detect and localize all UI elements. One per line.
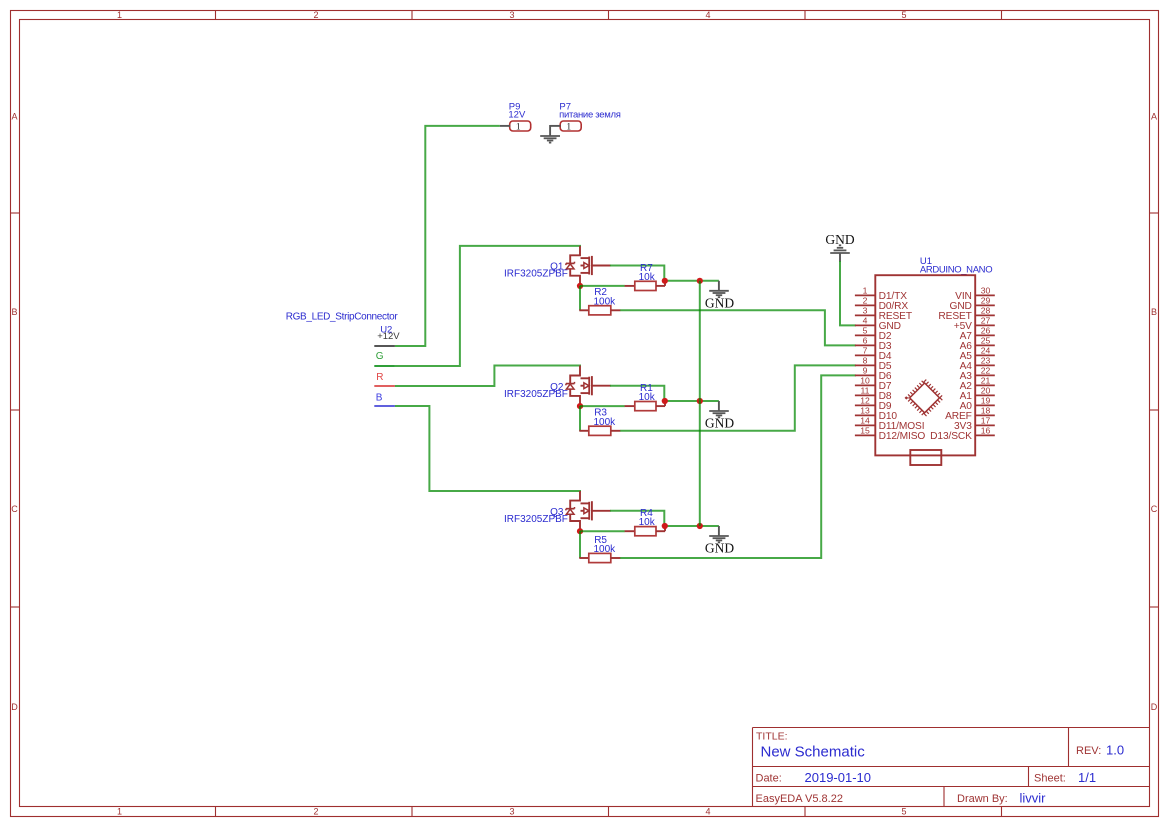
svg-text:16: 16 bbox=[981, 425, 991, 435]
svg-text:5: 5 bbox=[901, 807, 906, 817]
wire Q2 source to R1 bbox=[580, 405, 625, 407]
wire gate of Q3 to divider node bbox=[610, 511, 664, 526]
svg-text:+12V: +12V bbox=[377, 331, 400, 342]
svg-text:2: 2 bbox=[313, 10, 318, 20]
svg-text:C: C bbox=[11, 504, 18, 514]
svg-text:IRF3205ZPBF: IRF3205ZPBF bbox=[504, 514, 568, 525]
svg-text:3: 3 bbox=[863, 305, 868, 315]
title block bbox=[753, 728, 1150, 807]
junction node to ground trunk bbox=[697, 523, 703, 529]
svg-text:24: 24 bbox=[981, 345, 991, 355]
junction node to ground trunk bbox=[697, 278, 703, 284]
svg-text:3: 3 bbox=[509, 10, 514, 20]
svg-text:D12/MISO: D12/MISO bbox=[879, 431, 926, 442]
svg-text:27: 27 bbox=[981, 315, 991, 325]
svg-text:1.0: 1.0 bbox=[1106, 743, 1124, 758]
svg-text:livvir: livvir bbox=[1020, 791, 1047, 806]
pin +12V of U2 bbox=[374, 331, 400, 346]
wire divider node to ground (Q2 row) bbox=[664, 400, 719, 402]
svg-text:B: B bbox=[376, 392, 383, 403]
pin 2 D0/RX of U1 bbox=[855, 295, 908, 312]
wire Q1 source down to R2 bbox=[579, 286, 581, 310]
pin 18 AREF of U1 bbox=[945, 405, 995, 422]
pin R of U2 bbox=[374, 372, 395, 386]
svg-text:6: 6 bbox=[863, 335, 868, 345]
svg-text:5: 5 bbox=[863, 325, 868, 335]
svg-text:30: 30 bbox=[981, 285, 991, 295]
svg-text:18: 18 bbox=[981, 405, 991, 415]
svg-text:23: 23 bbox=[981, 355, 991, 365]
wire R net (U2.R to Q2 drain) bbox=[395, 366, 581, 387]
pin 22 A3 of U1 bbox=[960, 365, 995, 382]
svg-text:21: 21 bbox=[981, 375, 991, 385]
svg-text:3: 3 bbox=[509, 807, 514, 817]
svg-text:26: 26 bbox=[981, 325, 991, 335]
resistor R2 100k bbox=[579, 287, 620, 315]
pin 13 D10 of U1 bbox=[855, 405, 897, 422]
svg-text:GND: GND bbox=[705, 416, 734, 431]
svg-text:28: 28 bbox=[981, 305, 991, 315]
resistor R4 10k bbox=[625, 508, 665, 536]
junction node to ground trunk bbox=[697, 398, 703, 404]
svg-text:B: B bbox=[11, 307, 17, 317]
svg-text:11: 11 bbox=[861, 385, 870, 395]
svg-text:IRF3205ZPBF: IRF3205ZPBF bbox=[504, 269, 568, 280]
svg-text:1: 1 bbox=[863, 285, 868, 295]
wire divider node to ground (Q3 row) bbox=[664, 525, 719, 527]
svg-text:20: 20 bbox=[981, 385, 991, 395]
junction at Q2 source bbox=[577, 403, 583, 409]
svg-text:1: 1 bbox=[117, 807, 122, 817]
svg-text:17: 17 bbox=[981, 415, 991, 425]
svg-text:Date:: Date: bbox=[756, 773, 782, 785]
svg-text:питание земля: питание земля bbox=[559, 110, 621, 121]
wire G net (U2.G to Q1 drain) bbox=[395, 246, 581, 366]
wire Q3 source down to R5 bbox=[579, 531, 581, 558]
svg-text:8: 8 bbox=[863, 355, 868, 365]
ground (Q1 row) bbox=[709, 281, 729, 297]
svg-text:22: 22 bbox=[981, 365, 991, 375]
pin 27 +5V of U1 bbox=[954, 315, 995, 332]
connector P7 bbox=[550, 102, 621, 133]
wire ground-node trunk (rows 1-3) bbox=[699, 281, 701, 526]
svg-text:1: 1 bbox=[117, 10, 122, 20]
pin 5 D2 of U1 bbox=[855, 325, 892, 342]
resistor R1 10k bbox=[625, 383, 665, 411]
svg-text:1/1: 1/1 bbox=[1078, 770, 1096, 785]
svg-text:10k: 10k bbox=[639, 272, 656, 283]
pin 11 D8 of U1 bbox=[855, 385, 892, 402]
junction at Q1 source bbox=[577, 283, 583, 289]
wire 12V net (P9 to U2 +12V) bbox=[395, 126, 500, 346]
pin 14 D11/MOSI of U1 bbox=[855, 415, 925, 432]
transistor Q3 IRF3205ZPBF bbox=[504, 491, 611, 531]
wire R3 to U1 D5 bbox=[620, 365, 856, 430]
svg-text:15: 15 bbox=[860, 425, 870, 435]
pin 8 D5 of U1 bbox=[855, 355, 892, 372]
svg-text:5: 5 bbox=[901, 10, 906, 20]
ground (P7) bbox=[540, 125, 560, 143]
svg-text:1: 1 bbox=[566, 122, 571, 132]
svg-text:D: D bbox=[1151, 702, 1158, 712]
connector P9 bbox=[500, 102, 531, 133]
resistor R5 100k bbox=[579, 535, 620, 563]
svg-text:R: R bbox=[376, 372, 383, 383]
svg-text:Sheet:: Sheet: bbox=[1034, 773, 1066, 785]
chip icon inside U1 bbox=[907, 380, 942, 415]
svg-text:G: G bbox=[376, 351, 384, 362]
ground (Q2 row) bbox=[709, 401, 729, 417]
svg-text:4: 4 bbox=[705, 807, 710, 817]
pin 29 GND of U1 bbox=[950, 295, 995, 312]
svg-text:2019-01-10: 2019-01-10 bbox=[805, 770, 872, 785]
wire Q2 source down to R3 bbox=[579, 406, 581, 431]
pin 10 D7 of U1 bbox=[855, 375, 892, 392]
svg-text:Drawn By:: Drawn By: bbox=[957, 793, 1008, 805]
pin 23 A4 of U1 bbox=[960, 355, 995, 372]
svg-text:7: 7 bbox=[863, 345, 868, 355]
svg-text:10k: 10k bbox=[639, 517, 656, 528]
USB connector of U1 bbox=[910, 450, 941, 465]
svg-text:2: 2 bbox=[863, 295, 868, 305]
transistor Q2 IRF3205ZPBF bbox=[504, 366, 611, 407]
svg-text:100k: 100k bbox=[594, 417, 617, 428]
pin 26 A7 of U1 bbox=[960, 325, 995, 342]
svg-text:A: A bbox=[11, 111, 17, 121]
ground (U1 GND pin) bbox=[830, 245, 850, 261]
pin 7 D4 of U1 bbox=[855, 345, 892, 362]
svg-text:TITLE:: TITLE: bbox=[756, 731, 788, 743]
svg-text:ARDUINO_NANO: ARDUINO_NANO bbox=[920, 265, 992, 276]
svg-text:100k: 100k bbox=[594, 296, 617, 307]
pin 17 3V3 of U1 bbox=[954, 415, 995, 432]
svg-text:12V: 12V bbox=[508, 110, 526, 121]
pin 19 A0 of U1 bbox=[960, 395, 995, 412]
svg-text:A: A bbox=[1151, 111, 1157, 121]
pin 15 D12/MISO of U1 bbox=[855, 425, 925, 442]
svg-text:D13/SCK: D13/SCK bbox=[930, 431, 972, 442]
pin 20 A1 of U1 bbox=[960, 385, 995, 402]
wire GND to U1 pin 4 bbox=[840, 261, 856, 325]
junction R7/gate node bbox=[662, 278, 668, 284]
svg-text:10k: 10k bbox=[639, 392, 656, 403]
wire R5 to U1 D6 bbox=[620, 375, 856, 558]
svg-text:C: C bbox=[1151, 504, 1158, 514]
pin 3 RESET of U1 bbox=[855, 305, 912, 322]
svg-text:GND: GND bbox=[705, 295, 734, 310]
svg-text:EasyEDA V5.8.22: EasyEDA V5.8.22 bbox=[756, 793, 843, 805]
junction R4/gate node bbox=[662, 523, 668, 529]
wire R2 to U1 D3 bbox=[620, 310, 856, 345]
pin 6 D3 of U1 bbox=[855, 335, 892, 352]
IC U1 ARDUINO_NANO bbox=[875, 256, 992, 455]
pin 12 D9 of U1 bbox=[855, 395, 892, 412]
resistor R3 100k bbox=[579, 408, 620, 436]
pin 1 D1/TX of U1 bbox=[855, 285, 907, 302]
pin G of U2 bbox=[374, 351, 395, 366]
junction R1/gate node bbox=[662, 398, 668, 404]
svg-text:100k: 100k bbox=[594, 544, 617, 555]
pin B of U2 bbox=[374, 392, 395, 406]
pin 16 D13/SCK of U1 bbox=[930, 425, 995, 442]
svg-text:RGB_LED_StripConnector: RGB_LED_StripConnector bbox=[286, 312, 399, 323]
resistor R7 10k bbox=[625, 263, 665, 291]
wire Q3 source to R4 bbox=[580, 530, 625, 532]
wire divider node to ground (Q1 row) bbox=[664, 280, 719, 282]
pin 4 GND of U1 bbox=[855, 315, 901, 332]
svg-text:9: 9 bbox=[863, 365, 868, 375]
wire Q1 source to R7 bbox=[580, 285, 625, 287]
pin 21 A2 of U1 bbox=[960, 375, 995, 392]
svg-text:New Schematic: New Schematic bbox=[761, 744, 866, 761]
wire B net (U2.B to Q3 drain) bbox=[395, 406, 581, 491]
svg-text:4: 4 bbox=[705, 10, 710, 20]
ground (Q3 row) bbox=[709, 526, 729, 542]
connector U2 RGB_LED_StripConnector bbox=[286, 312, 399, 336]
svg-text:1: 1 bbox=[516, 122, 521, 132]
svg-text:14: 14 bbox=[860, 415, 870, 425]
pin 24 A5 of U1 bbox=[960, 345, 995, 362]
svg-text:12: 12 bbox=[860, 395, 870, 405]
svg-text:10: 10 bbox=[860, 375, 870, 385]
pin 30 VIN of U1 bbox=[955, 285, 995, 302]
svg-text:GND: GND bbox=[705, 541, 734, 556]
svg-text:19: 19 bbox=[981, 395, 991, 405]
pin 28 RESET of U1 bbox=[938, 305, 994, 322]
svg-text:4: 4 bbox=[863, 315, 868, 325]
pin 25 A6 of U1 bbox=[960, 335, 995, 352]
svg-text:REV:: REV: bbox=[1076, 745, 1101, 757]
pin 9 D6 of U1 bbox=[855, 365, 892, 382]
svg-text:2: 2 bbox=[313, 807, 318, 817]
svg-text:B: B bbox=[1151, 307, 1157, 317]
transistor Q1 IRF3205ZPBF bbox=[504, 246, 611, 286]
svg-text:D: D bbox=[11, 702, 18, 712]
wire gate of Q2 to divider node bbox=[610, 386, 664, 401]
svg-text:13: 13 bbox=[860, 405, 870, 415]
junction at Q3 source bbox=[577, 528, 583, 534]
wire gate of Q1 to divider node bbox=[610, 266, 664, 281]
svg-text:IRF3205ZPBF: IRF3205ZPBF bbox=[504, 389, 568, 400]
svg-text:25: 25 bbox=[981, 335, 991, 345]
svg-text:29: 29 bbox=[981, 295, 991, 305]
